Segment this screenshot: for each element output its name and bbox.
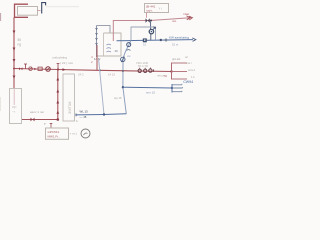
wire: hot tap line from tank to taps [113,18,190,41]
check valve CV1 [29,67,33,71]
svg-text:3MT08: 3MT08 [67,101,72,114]
svg-text:retour: retour [157,74,164,78]
wire: manifold branch a [172,62,188,64]
scan edge mark left upper [0,13,1,21]
flow arrow on return riser (top) [56,77,59,80]
flow arrow on riser (second) [13,48,16,52]
tick on heating line [153,69,155,71]
node: tee at x58 [57,68,59,70]
node: cold distribution tee [122,86,124,88]
wire: red riser from HX1 down to heat pump [13,17,15,88]
svg-text:50: 50 [164,74,168,78]
svg-text:50 cv 50: 50 cv 50 [138,64,149,68]
branch end ticks [181,84,184,92]
gauge PG2 on cold drop [127,43,131,47]
node: bottom run junction [103,113,105,115]
wire: manifold branch b [172,71,188,73]
tick chevrons on tank left edge [96,28,98,45]
wire: cold water line [117,40,194,41]
svg-text:gtd akl: gtd akl [172,57,181,61]
expansion vessel EV1 bracket [42,3,46,14]
flow arrow on riser (third) [13,59,16,63]
svg-text:14 15: 14 15 [108,73,115,77]
water meter WM1 [143,38,147,42]
flow arrow on heating flow line [63,68,66,71]
DHW tank T1 main body [97,33,122,56]
pressure gauge PG1 [149,29,153,33]
node: tap line tee [150,20,152,22]
node: cold manifold junction [171,87,173,89]
heating manifold M1 header [171,63,173,80]
svg-text:( 22 ) mm: ( 22 ) mm [60,61,74,65]
wire: left cold drop from tank [99,58,105,115]
stop valve dot on cold line [160,39,162,41]
svg-text:wp: wp [12,105,16,109]
wires: cold manifold branches [172,85,183,92]
svg-text:+ m.): + m.) [70,132,77,136]
coil symbol inside tank [107,44,111,52]
faint scan streak top [46,6,79,8]
gauge G1 on heating line [138,69,141,72]
crossing blob right on red line [122,70,124,72]
wire: manifold branch c [172,78,188,80]
svg-text:ww.: ww. [172,20,177,23]
svg-text:aanv 1 net: aanv 1 net [30,110,44,114]
svg-text:14 w: 14 w [94,57,101,61]
svg-text:WL 15: WL 15 [80,109,89,113]
air vent T symbol [24,64,27,69]
wire: bottom return line from heat pump [22,119,58,121]
crossing blob left on red line [99,69,101,71]
valve V2 bowtie on return [31,118,35,122]
svg-text:wm 15: wm 15 [146,91,155,95]
node: riser/branch junction [13,68,15,70]
svg-text:~s: ~s [12,110,16,114]
flow arrow on riser (upper) [13,31,16,35]
wire: relief stub down to gauge [150,22,152,41]
flow arrow on return riser (mid) [56,89,59,92]
wire: return riser x58 [57,70,59,120]
svg-text:50: 50 [18,38,22,42]
gauge G3 on heating line [149,69,152,72]
valve V1 bowtie [19,67,22,70]
svg-text:T: T [44,122,46,126]
flow arrow on branch [34,68,37,71]
wire: cold distribution line [123,86,172,89]
svg-text:40: 40 [115,49,119,53]
svg-text:15 m: 15 m [172,43,179,47]
cold manifold M2 header [171,84,173,93]
wire: red heating flow line to radiator manifold [58,70,172,72]
end tick at bottom run left [75,114,77,117]
DHW tank T1 left edge [96,26,98,58]
heat pump unit WP1 box [10,89,22,124]
flow arrow on return riser (bottom) [56,111,59,114]
buffer vessel B1 tall box [63,74,75,121]
wire: red supply/return loop into HX1 [15,4,29,17]
arc fitting on cold drop [127,49,131,52]
flow arrow on return riser (lower) [56,100,59,103]
svg-text:tap t.: tap t. [147,8,154,12]
cross fitting on cold line [164,38,167,42]
pump P1 [46,67,51,72]
wire: riser continuation inside heat pump [13,89,15,106]
svg-text:— 15: — 15 [80,115,87,119]
heat exchanger HX1 body (top-left) [18,7,38,16]
svg-text:nat l: nat l [187,61,192,65]
DHW unit U1 box (three sides) [131,27,156,40]
circled symbol S1 bottom [81,129,90,138]
gauge stems [140,68,151,70]
air vent at node 58 [57,64,60,70]
leader line from spec box to valve [146,13,148,18]
svg-text:CW94: CW94 [183,80,193,84]
scan edge mark left lower [0,97,2,111]
node: return corner x58 [57,118,60,121]
svg-text:wPC541: wPC541 [48,130,60,134]
arrow chevron 2 at tap line end [189,16,192,20]
svg-text:wp 15: wp 15 [114,96,122,100]
check valve CV2 on cold drop [121,57,125,61]
flow arrow on riser (lower) [13,76,16,80]
svg-text:24-2: 24-2 [78,73,84,77]
gauge G2 on heating line [144,69,147,72]
svg-text:Naar: Naar [184,12,190,16]
svg-text:Y t: Y t [159,7,163,11]
arrow at cold line end [192,38,196,42]
valve V3 dark bowtie on tap line [146,18,150,22]
DHW tank T1 top step outline [97,26,111,34]
svg-text:arl: arl [185,55,188,59]
filter F1 inline box [38,67,42,70]
wire: branch line from riser node [14,69,58,70]
node: heating manifold junction [170,70,172,72]
legend note box bottom [46,128,69,139]
svg-text:1 b: 1 b [191,75,195,79]
svg-text:ams d: ams d [188,68,196,72]
svg-text:MW1.Fr..: MW1.Fr.. [48,135,60,139]
gauge siphon curl [152,26,155,29]
arrow chevron 1 at tap line end [187,16,191,20]
svg-text:ng: ng [18,43,22,47]
svg-text:KW aansluiting: KW aansluiting [169,36,189,40]
dark fitting at U1 top-right corner [154,27,156,29]
svg-text:ontluchting: ontluchting [52,56,67,60]
T mark above legend box [50,124,53,128]
wire: bottom cold run [76,114,126,115]
wire: cold feed drop from junction [123,40,131,114]
wire: red feed along tank left [96,45,98,70]
wire: stub HX1 to expansion vessel [38,10,41,12]
spec note box (top-right) [145,4,169,13]
